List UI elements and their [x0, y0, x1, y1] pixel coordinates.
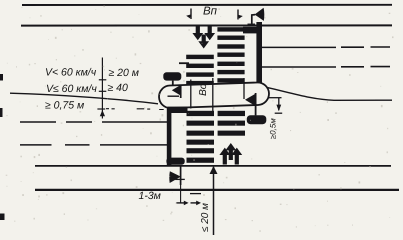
right lane line upper dashes [341, 46, 390, 48]
lower zebra left column [168, 107, 215, 163]
pedestrian flow arrows entering from bottom [219, 143, 242, 165]
road edge line top (L1) [22, 4, 392, 6]
svg-text:Во: Во [198, 83, 209, 96]
road sign flag bottom-left [169, 166, 185, 185]
scan mark left edge 3 [0, 214, 5, 221]
right lane line lower solid (L4) [261, 66, 337, 68]
right lane line upper solid (L3) [261, 46, 337, 48]
dimension Bp left arrowhead [186, 14, 191, 18]
sign flag at vehicle rear-right [245, 93, 256, 115]
clearance 0,5m dimension [268, 98, 282, 114]
crossing edge guide line through vehicle (left) [190, 80, 192, 109]
left dashed lane line upper (D1) [20, 121, 167, 123]
right lane line lower dashes [341, 66, 390, 68]
lower zebra right column [218, 111, 245, 136]
dash-dot reference line [106, 108, 164, 111]
svg-text:≥0,5м: ≥0,5м [268, 118, 277, 140]
distance 20m dimension line [213, 167, 215, 235]
distance 20m arrowhead [210, 166, 218, 174]
svg-text:≥ 0,75 м: ≥ 0,75 м [45, 99, 84, 111]
short tick below bottom line [190, 193, 201, 195]
left dashed lane line lower (D2) [20, 144, 167, 146]
scan mark left edge 1 [0, 74, 3, 81]
sign plate below right [247, 115, 266, 124]
crossing edge guide line through vehicle (right) [243, 78, 245, 99]
right island taper line (L6) [268, 88, 393, 101]
dimension Bp right arrowhead [238, 15, 243, 19]
sign flag at vehicle front-left [168, 85, 182, 99]
sign plate on island left [163, 72, 181, 86]
lower road line (L7) [35, 165, 391, 167]
upper zebra right column [217, 27, 257, 83]
svg-text:≥ 20 м: ≥ 20 м [109, 67, 139, 79]
road line second top (L2) [21, 24, 392, 26]
small stray mark left of upper zebra [179, 62, 189, 64]
svg-text:V≤ 60 км/ч: V≤ 60 км/ч [46, 83, 97, 95]
svg-text:≤ 20 м: ≤ 20 м [200, 203, 211, 232]
road sign flag top-right [248, 8, 265, 26]
svg-text:1-3м: 1-3м [139, 190, 161, 202]
dimension Bp left tick [190, 9, 192, 20]
vehicle (bus) in plan view [159, 82, 270, 108]
small dimension arrow 1 [176, 201, 188, 206]
island border thick line upper-right [256, 22, 262, 86]
scan mark left edge 2 [0, 108, 3, 117]
left island taper line (L5) [10, 93, 158, 104]
svg-text:V< 60 км/ч: V< 60 км/ч [45, 66, 97, 78]
small dimension arrow 2 [191, 201, 202, 206]
sign plate bottom-left [166, 158, 184, 165]
island border thick line lower-left [167, 105, 172, 165]
dimension Bp right tick [237, 10, 239, 20]
offset 0,75m arrowhead [100, 110, 105, 116]
svg-text:≥ 40: ≥ 40 [108, 82, 129, 94]
clearance 0,5m dimension arrowhead [276, 105, 281, 112]
bottom road edge line (L8) [35, 189, 399, 191]
svg-text:Вп: Вп [203, 6, 218, 18]
offset 0,75m dimension line [97, 58, 106, 119]
upper zebra left column [186, 55, 214, 86]
extension line below sign [180, 185, 182, 204]
pedestrian flow arrows entering from top [192, 26, 215, 49]
crossing edge guide line through vehicle (middle) [212, 78, 214, 112]
